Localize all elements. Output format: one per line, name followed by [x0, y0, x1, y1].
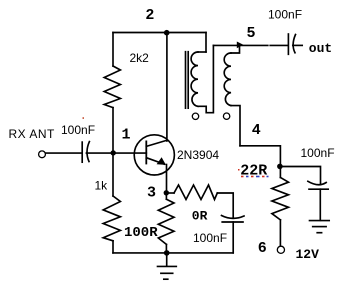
wire input terminal to cap: [46, 152, 82, 154]
svg-text:100nF: 100nF: [301, 146, 335, 160]
transistor Q1 collector diagonal: [146, 140, 167, 146]
resistor R3 1k: [103, 196, 120, 241]
ground G2 bar2: [313, 226, 326, 228]
ground G1 bar1: [158, 265, 177, 267]
transistor Q1 emitter diagonal: [146, 158, 164, 165]
wire cap to node1: [86, 152, 113, 154]
resistor R2 100R: [158, 199, 174, 244]
svg-text:2k2: 2k2: [130, 51, 150, 65]
wire top rail node2: [113, 32, 206, 34]
transformer T1 primary top stub: [198, 51, 206, 53]
svg-text:12V: 12V: [296, 247, 320, 262]
transistor Q1 base bar: [145, 141, 147, 163]
svg-text:2N3904: 2N3904: [177, 148, 219, 162]
wire 0R to cap: [217, 193, 233, 218]
svg-text:1: 1: [122, 126, 131, 143]
transformer T1 secondary top stub: [231, 45, 240, 53]
node 3 junction dot: [164, 190, 169, 195]
resistor R4 0R horizontal: [174, 185, 217, 200]
wire cap to ground2: [319, 189, 321, 220]
capacitor C4 100nF out plate2 curved: [293, 35, 295, 53]
wire out cap right: [293, 44, 302, 46]
transistor Q1 emitter arrowhead: [157, 157, 166, 165]
svg-text:1k: 1k: [95, 179, 109, 193]
ground G1 stem: [166, 253, 168, 266]
wire node1 to 1k: [112, 153, 114, 196]
artifact red dot: [238, 169, 240, 171]
resistor R1 2k2: [104, 66, 120, 108]
wire 100R to rail: [165, 244, 167, 253]
ground G1 bar3: [164, 278, 168, 280]
transformer T1 core line1: [185, 52, 187, 108]
terminal 6 circle: [277, 246, 284, 253]
transistor Q1 circle: [134, 135, 174, 175]
spellcheck underline 22R: [241, 176, 269, 178]
svg-text:5: 5: [247, 25, 256, 42]
transformer T1 secondary winding: [224, 53, 231, 106]
capacitor C1 100nF input plate1: [81, 142, 83, 162]
wire node5 to out cap segment2: [270, 44, 287, 46]
capacitor C2 100nF straight plate: [222, 221, 243, 223]
wire node3 to 100R: [165, 193, 167, 199]
svg-text:0R: 0R: [192, 209, 208, 224]
transformer T1 secondary bottom stub: [231, 106, 240, 146]
terminal RX ANT circle: [39, 151, 46, 158]
resistor R5 22R: [272, 178, 289, 220]
wire emitter to node3: [166, 165, 168, 194]
wire 2k2 bottom to node1: [112, 108, 114, 153]
wire cap to rail: [232, 222, 234, 253]
svg-text:6: 6: [258, 240, 267, 257]
wire rail to primary top: [205, 33, 207, 53]
svg-text:RX ANT: RX ANT: [9, 127, 56, 141]
svg-text:2: 2: [145, 7, 154, 24]
svg-text:out: out: [309, 41, 332, 56]
node 2 junction dot: [164, 30, 170, 36]
svg-text:100nF: 100nF: [268, 8, 302, 22]
svg-text:100R: 100R: [124, 225, 158, 241]
capacitor C3 100nF right curved plate: [308, 181, 326, 184]
wire collector: [166, 33, 168, 142]
ground G2 bar3: [317, 232, 321, 234]
node 5 junction arrow: [237, 42, 244, 49]
transformer T1 primary winding: [191, 52, 198, 106]
capacitor C4 100nF out plate1: [287, 34, 289, 54]
node 4 junction dot: [277, 164, 283, 170]
capacitor C2 100nF curved plate: [222, 216, 245, 219]
svg-text:4: 4: [252, 122, 261, 139]
capacitor C3 100nF right straight plate: [309, 188, 328, 190]
svg-text:100nF: 100nF: [193, 231, 227, 245]
wire node5 horizontal: [213, 44, 267, 46]
transformer T1 primary bottom route: [198, 45, 213, 112]
svg-text:100nF: 100nF: [61, 123, 95, 137]
wire 1k bottom: [112, 241, 114, 253]
wire base: [113, 152, 146, 154]
wire secondary to node4 corner: [240, 146, 280, 167]
wire 2k2 top: [112, 33, 114, 67]
wire 22R to terminal6: [279, 220, 281, 245]
capacitor C1 100nF input plate2 curved: [87, 142, 89, 162]
wire node4 to 22R: [279, 167, 281, 178]
wire node4 to right cap: [280, 167, 320, 185]
transformer T1 primary phase circle: [192, 113, 198, 119]
transformer T1 secondary phase circle: [223, 113, 229, 119]
ground rail junction dot: [164, 250, 170, 256]
ground G2 bar1: [310, 220, 330, 222]
ground G1 bar2: [161, 272, 173, 274]
svg-text:3: 3: [147, 185, 156, 202]
wire bottom rail: [113, 252, 233, 254]
wire node3 to 0R: [166, 192, 174, 194]
transformer T1 core line2: [187, 52, 189, 108]
node 1 junction dot: [111, 150, 116, 155]
